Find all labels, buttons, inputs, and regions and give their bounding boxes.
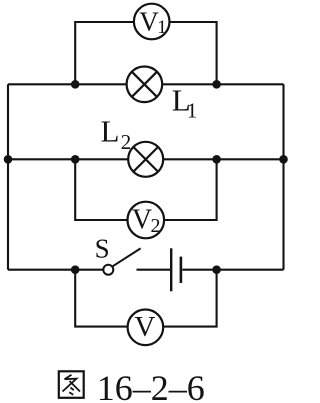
wire [8, 83, 127, 85]
voltmeter V [128, 310, 164, 346]
wire [137, 269, 171, 271]
junction dot [212, 80, 221, 89]
battery [171, 248, 181, 291]
svg-text:2: 2 [151, 215, 161, 237]
wire [170, 22, 217, 84]
junction dot [212, 155, 221, 164]
wire [182, 269, 283, 271]
junction dot [212, 265, 221, 274]
svg-text:V: V [139, 6, 159, 36]
wire [75, 159, 127, 220]
voltmeter V1 [134, 4, 170, 40]
svg-text:16–2–6: 16–2–6 [97, 368, 205, 403]
svg-text:L: L [101, 113, 120, 148]
voltmeter V2 [128, 202, 165, 239]
svg-text:1: 1 [157, 17, 167, 38]
junction dot [71, 80, 80, 89]
junction dot [279, 155, 288, 164]
svg-text:1: 1 [187, 99, 198, 123]
wire [164, 159, 217, 220]
wire [282, 84, 284, 269]
lamp L2 [128, 142, 163, 177]
wire [7, 84, 9, 269]
junction dot [71, 265, 80, 274]
svg-text:V: V [132, 204, 152, 235]
wire [8, 158, 128, 160]
wire [75, 270, 127, 327]
svg-text:V: V [134, 311, 155, 343]
junction dot [71, 155, 80, 164]
lamp L1 [127, 67, 163, 103]
svg-text:2: 2 [121, 130, 132, 154]
junction dot [4, 155, 13, 164]
caption: character 图 [59, 371, 84, 398]
wire [8, 269, 103, 271]
wire [163, 158, 283, 160]
svg-text:S: S [95, 234, 110, 264]
wire [162, 83, 283, 85]
label L1 [172, 83, 198, 123]
wire [163, 270, 216, 327]
label L2 [101, 113, 132, 154]
switch S [103, 248, 140, 274]
wire [75, 22, 134, 84]
